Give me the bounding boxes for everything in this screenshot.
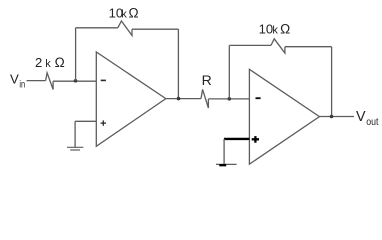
op-amp U2 minus sign	[256, 97, 261, 99]
wire feedback-2 top right segment	[285, 46, 332, 48]
resistor R zigzag	[201, 89, 208, 108]
svg-text:R: R	[202, 72, 212, 88]
svg-text:Ω: Ω	[129, 6, 139, 21]
wire U2 non-inverting input (bold)	[224, 138, 249, 140]
svg-text:V: V	[356, 109, 366, 125]
wire feedback-2 top left segment	[229, 44, 271, 46]
svg-text:Ω: Ω	[55, 55, 65, 70]
op-amp U1 triangle	[96, 52, 166, 146]
wire feedback-1 right vertical	[177, 29, 179, 98]
op-amp U1 minus sign	[101, 79, 106, 81]
wire R1 to op-amp U1 inverting input	[53, 80, 96, 82]
wire ground stub 2	[223, 139, 225, 164]
svg-text:Ω: Ω	[280, 22, 290, 37]
wire Vin to R1	[27, 80, 46, 82]
resistor R1 2kohm zigzag	[46, 73, 54, 90]
resistor R2 10kohm zigzag	[118, 21, 132, 36]
wire R to op-amp U2 inverting input	[208, 98, 249, 100]
op-amp U2 plus sign (bold)	[252, 138, 259, 140]
svg-text:out: out	[366, 117, 378, 128]
wire ground stub 1	[74, 121, 76, 147]
junction node A (feedback to input)	[74, 79, 78, 83]
wire feedback-1 top right segment	[132, 28, 178, 30]
ground 1 bar 2	[70, 149, 80, 151]
svg-text:k: k	[121, 9, 127, 21]
ground 1 bar 1	[67, 146, 83, 148]
resistor R3 10kohm zigzag	[271, 39, 285, 53]
wire U1 output	[166, 98, 201, 100]
svg-text:10: 10	[259, 22, 273, 37]
junction node C (feedback-2 to input)	[228, 97, 232, 101]
op-amp U2 triangle	[249, 69, 319, 164]
wire feedback-2 left vertical	[228, 45, 230, 99]
svg-text:V: V	[10, 72, 19, 87]
junction node B (output / feedback-1)	[177, 97, 181, 101]
ground 2 thin bar	[216, 163, 237, 165]
wire feedback-2 right vertical	[331, 47, 333, 117]
svg-text:in: in	[19, 80, 25, 91]
svg-text:k: k	[272, 25, 278, 37]
wire feedback-1 left vertical	[75, 28, 77, 81]
ground 2 bold bar	[219, 164, 226, 166]
wire U1 non-inverting input	[75, 120, 96, 122]
junction node D (output / feedback-2)	[330, 115, 334, 119]
svg-text:k: k	[45, 58, 51, 70]
svg-text:2: 2	[35, 55, 42, 70]
op-amp U1 plus sign	[101, 122, 106, 124]
wire U2 output	[319, 116, 354, 118]
wire feedback-1 top left segment	[76, 27, 118, 29]
